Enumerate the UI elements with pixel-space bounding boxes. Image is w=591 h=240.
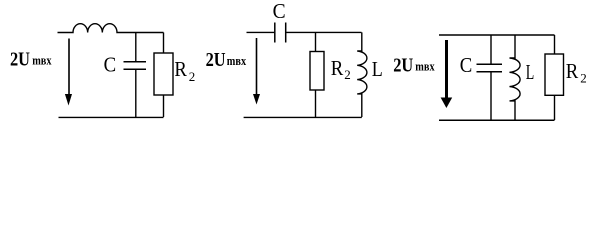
svg-text:2U: 2U: [10, 49, 30, 70]
svg-text:2U: 2U: [393, 56, 413, 77]
svg-text:mвх: mвх: [227, 53, 247, 68]
svg-text:C: C: [104, 52, 117, 76]
svg-text:R: R: [331, 56, 344, 80]
svg-text:mвх: mвх: [32, 53, 52, 68]
svg-text:C: C: [460, 53, 473, 77]
svg-text:2: 2: [580, 70, 587, 85]
svg-text:2: 2: [189, 69, 196, 84]
svg-text:C: C: [273, 0, 286, 23]
svg-text:mвх: mвх: [415, 59, 435, 74]
svg-text:L: L: [372, 57, 383, 81]
svg-text:2U: 2U: [206, 50, 226, 71]
svg-text:R: R: [566, 59, 579, 83]
svg-text:2: 2: [344, 67, 351, 82]
svg-text:R: R: [174, 57, 187, 81]
svg-text:L: L: [526, 60, 535, 84]
